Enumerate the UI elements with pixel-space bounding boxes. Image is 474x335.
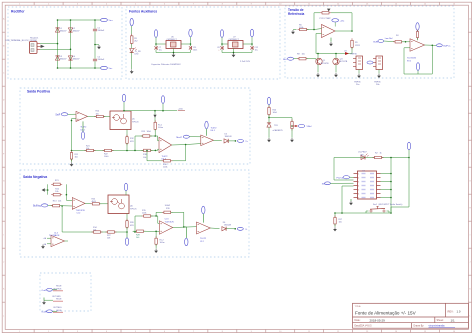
svg-text:vinyminiranda: vinyminiranda (429, 324, 446, 328)
svg-text:1N4148: 1N4148 (224, 225, 232, 227)
svg-text:V-: V- (245, 229, 247, 231)
svg-text:7: 7 (193, 4, 194, 6)
svg-text:R4: R4 (396, 35, 398, 37)
svg-text:3300uF: 3300uF (98, 30, 106, 32)
svg-text:3: 3 (358, 181, 359, 183)
svg-text:Header1: Header1 (30, 37, 39, 40)
svg-text:HOLE: HOLE (56, 286, 62, 288)
svg-text:10k: 10k (302, 53, 305, 55)
svg-text:CM7809CT: CM7809CT (229, 39, 240, 41)
svg-text:100m: 100m (160, 242, 165, 244)
svg-text:TL072: TL072 (162, 156, 169, 158)
svg-text:10: 10 (279, 331, 281, 333)
svg-text:OUTNEG: OUTNEG (53, 307, 62, 309)
svg-text:10k: 10k (143, 157, 146, 159)
svg-text:9: 9 (251, 4, 252, 6)
svg-text:TITLE:: TITLE: (355, 306, 362, 308)
svg-text:Saída Negativa: Saída Negativa (23, 175, 47, 179)
svg-text:4: 4 (106, 4, 107, 6)
svg-text:12: 12 (337, 4, 339, 6)
svg-text:6: 6 (164, 4, 165, 6)
svg-text:L: L (3, 316, 4, 318)
svg-text:BufN: BufN (373, 41, 378, 43)
svg-text:LED: LED (135, 54, 139, 56)
svg-text:BufPos: BufPos (443, 45, 451, 47)
svg-text:16: 16 (453, 331, 455, 333)
svg-text:10k: 10k (58, 201, 61, 203)
svg-text:TL074ACN: TL074ACN (49, 234, 60, 237)
svg-text:2: 2 (48, 331, 49, 333)
svg-text:REF30: REF30 (351, 54, 358, 56)
svg-text:BufNeg: BufNeg (33, 206, 41, 208)
svg-text:TL072: TL072 (80, 127, 87, 129)
svg-text:EasyEDA V4.8.5: EasyEDA V4.8.5 (355, 325, 373, 328)
svg-text:16: 16 (453, 4, 455, 6)
svg-text:5: 5 (135, 331, 136, 333)
svg-text:7: 7 (193, 331, 194, 333)
svg-text:8: 8 (222, 331, 223, 333)
svg-text:TL072CN: TL072CN (407, 57, 416, 59)
svg-text:1.0: 1.0 (457, 310, 461, 314)
svg-text:10u: 10u (159, 49, 162, 51)
svg-text:2: 2 (48, 4, 49, 6)
svg-text:TIP125: TIP125 (130, 208, 137, 210)
svg-text:1N4007: 1N4007 (60, 31, 68, 33)
svg-text:TL072: TL072 (211, 127, 218, 129)
svg-text:BC557B: BC557B (340, 61, 348, 63)
svg-text:LED: LED (360, 154, 364, 156)
svg-text:OUTGND: OUTGND (52, 296, 61, 298)
svg-text:Fonte de Alimentação +/- 15V: Fonte de Alimentação +/- 15V (355, 310, 417, 315)
svg-text:8: 8 (222, 4, 223, 6)
svg-text:10k: 10k (339, 222, 342, 224)
svg-text:TL072: TL072 (200, 238, 207, 240)
svg-text:1N4007: 1N4007 (73, 31, 81, 33)
svg-text:100m: 100m (158, 127, 163, 129)
svg-text:POT-CT6EP: POT-CT6EP (320, 18, 332, 20)
svg-text:1/1: 1/1 (451, 318, 456, 322)
svg-text:TL074CN: TL074CN (165, 221, 174, 223)
svg-text:10u: 10u (255, 49, 258, 51)
svg-text:TMP36: TMP36 (354, 81, 361, 83)
svg-text:Date:: Date: (355, 319, 361, 322)
svg-text:3: 3 (77, 4, 78, 6)
svg-text:1: 1 (19, 4, 20, 6)
svg-text:Referência: Referência (288, 12, 305, 16)
svg-text:6: 6 (358, 193, 359, 195)
svg-text:10k: 10k (96, 113, 99, 115)
svg-text:12: 12 (337, 331, 339, 333)
svg-text:4: 4 (106, 331, 107, 333)
svg-text:7: 7 (358, 197, 359, 199)
svg-text:HOLE: HOLE (56, 299, 62, 301)
svg-text:100k2: 100k2 (165, 205, 171, 207)
svg-text:Low Ref: Low Ref (385, 38, 393, 40)
svg-text:10k: 10k (86, 148, 89, 150)
svg-text:6: 6 (164, 331, 165, 333)
svg-text:13: 13 (366, 4, 368, 6)
svg-text:Saída Positiva: Saída Positiva (27, 90, 50, 94)
svg-text:100k: 100k (299, 27, 303, 29)
svg-text:10: 10 (279, 4, 281, 6)
svg-text:OutN: OutN (41, 310, 47, 313)
svg-text:TIP120: TIP120 (132, 121, 139, 123)
svg-text:14: 14 (395, 331, 397, 333)
svg-text:L: L (469, 316, 470, 318)
svg-text:HOLE: HOLE (56, 310, 62, 312)
svg-text:14: 14 (395, 4, 397, 6)
svg-text:9: 9 (251, 331, 252, 333)
svg-text:CM7805CT: CM7805CT (167, 39, 178, 41)
svg-text:Capacitor Poliester 100M250V: Capacitor Poliester 100M250V (151, 63, 181, 66)
svg-text:Sheet:: Sheet: (437, 319, 445, 322)
svg-text:Ref: Ref (283, 59, 287, 61)
svg-text:Vin+: Vin+ (109, 20, 114, 22)
svg-text:uCAREF25: uCAREF25 (273, 129, 284, 132)
svg-text:+15D: +15D (178, 109, 184, 111)
svg-text:3: 3 (77, 331, 78, 333)
svg-text:(KEY-SPDT Tactile Switch): (KEY-SPDT Tactile Switch) (379, 203, 403, 206)
svg-text:2: 2 (358, 177, 359, 179)
svg-text:13: 13 (366, 331, 368, 333)
svg-text:SetP: SetP (55, 113, 60, 116)
svg-text:Vin-: Vin- (109, 68, 113, 70)
svg-text:Drawn By:: Drawn By: (414, 325, 425, 328)
svg-text:MedT: MedT (176, 137, 182, 139)
svg-text:2.2uF 16V: 2.2uF 16V (240, 61, 251, 63)
svg-text:5: 5 (135, 4, 136, 6)
svg-text:J: J (3, 262, 4, 264)
svg-text:1: 1 (19, 331, 20, 333)
svg-text:1k: 1k (380, 152, 382, 154)
svg-text:REV:: REV: (448, 310, 454, 314)
svg-text:10k: 10k (55, 191, 58, 193)
svg-text:1: 1 (358, 173, 359, 175)
svg-text:15: 15 (424, 331, 426, 333)
svg-text:Fontes Auxiliares: Fontes Auxiliares (129, 9, 157, 13)
svg-text:11: 11 (308, 331, 310, 333)
svg-text:2018-05-29: 2018-05-29 (370, 318, 386, 322)
svg-text:100n: 100n (193, 49, 197, 51)
svg-text:VRef: VRef (307, 126, 312, 128)
svg-text:PwrCtl: PwrCtl (337, 176, 344, 179)
svg-text:OUTPUS: OUTPUS (53, 288, 62, 290)
svg-text:OutP: OutP (42, 289, 48, 292)
svg-text:100k: 100k (163, 166, 167, 168)
svg-text:3300uF: 3300uF (98, 59, 106, 61)
svg-text:10k: 10k (93, 229, 96, 231)
svg-text:1N4148: 1N4148 (225, 136, 233, 138)
svg-text:100k: 100k (142, 213, 146, 215)
svg-text:BC547B: BC547B (321, 63, 329, 65)
svg-text:5: 5 (358, 189, 359, 191)
svg-text:1N4007: 1N4007 (73, 59, 81, 61)
svg-text:TMP36: TMP36 (374, 81, 381, 83)
svg-text:J: J (470, 262, 471, 264)
svg-text:1N4007: 1N4007 (60, 59, 68, 61)
svg-text:Rectifier: Rectifier (11, 9, 25, 13)
svg-text:15: 15 (424, 4, 426, 6)
svg-text:4: 4 (358, 185, 359, 187)
svg-text:11: 11 (308, 4, 310, 6)
